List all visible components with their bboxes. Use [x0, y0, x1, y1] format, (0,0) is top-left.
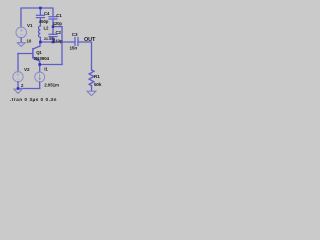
wire C2 to rail — [52, 37, 54, 42]
capacitor C1 — [49, 17, 57, 19]
svg-text:C3: C3 — [72, 32, 78, 37]
svg-text:C2: C2 — [56, 30, 62, 35]
wire C4 drop — [39, 8, 41, 15]
resistor R1 — [89, 70, 94, 86]
wire top rail — [21, 8, 53, 27]
node C2 / rail — [52, 41, 55, 44]
node V2 / I1 ground — [17, 87, 20, 90]
svg-text:120p: 120p — [53, 21, 63, 26]
ground under V1 — [17, 43, 25, 47]
node C1-C2 midpoint — [52, 25, 55, 28]
wire midpoint link — [53, 26, 62, 28]
svg-text:V1: V1 — [27, 23, 33, 28]
wire V2 top — [17, 54, 19, 72]
svg-text:2N3904: 2N3904 — [34, 56, 50, 61]
svg-text:L2: L2 — [44, 26, 50, 31]
node emitter / I1 — [38, 63, 41, 66]
node L2 / collector / rail — [39, 41, 42, 44]
wire I1 top — [39, 65, 41, 73]
inductor L2 — [39, 26, 41, 37]
svg-text:15n: 15n — [70, 46, 78, 51]
ground bottom — [14, 89, 22, 93]
svg-text:450p: 450p — [39, 19, 49, 24]
wire V2 bottom — [17, 82, 19, 89]
wire C3 to OUT corner — [78, 42, 92, 70]
labels — [10, 11, 102, 103]
voltage source V2 — [13, 72, 23, 82]
wire C4 to L2 — [39, 18, 41, 26]
capacitor C3 — [75, 38, 78, 46]
wire output rail — [40, 41, 75, 43]
svg-text:110p: 110p — [54, 39, 63, 44]
wire L2 to rail — [39, 37, 41, 42]
svg-text:10: 10 — [27, 38, 32, 43]
voltage source V1 — [16, 27, 27, 38]
svg-text:V2: V2 — [24, 67, 30, 72]
wire R1 bottom — [91, 86, 93, 91]
svg-text:50k: 50k — [94, 82, 102, 87]
svg-text:OUT: OUT — [84, 37, 96, 43]
wire C1 to midpoint — [52, 19, 54, 27]
wire collector — [39, 42, 41, 46]
wire feed column — [61, 27, 63, 65]
junction node dots — [17, 7, 55, 90]
capacitor C4 — [36, 15, 44, 17]
wire bottom link — [18, 88, 40, 90]
wire V1 bottom — [20, 38, 22, 43]
svg-text:C4: C4 — [44, 11, 50, 16]
wire emitter — [39, 61, 41, 64]
wire midpoint to C2 — [52, 27, 54, 35]
svg-text:Q1: Q1 — [36, 50, 42, 55]
svg-text:.tran 0 3µs 0 0.3n: .tran 0 3µs 0 0.3n — [10, 97, 57, 103]
svg-text:2.051m: 2.051m — [44, 83, 59, 88]
wire emitter link — [40, 64, 62, 66]
wire I1 bottom — [39, 82, 41, 89]
ground under R1 — [87, 91, 96, 95]
transistor Q1 — [33, 46, 40, 61]
capacitor C2 — [49, 34, 57, 36]
node top rail / C4 — [39, 7, 42, 10]
wire base — [18, 53, 33, 55]
svg-text:C1: C1 — [56, 13, 62, 18]
svg-text:R1: R1 — [94, 74, 100, 79]
current source I1 — [35, 72, 45, 82]
background — [0, 0, 120, 108]
